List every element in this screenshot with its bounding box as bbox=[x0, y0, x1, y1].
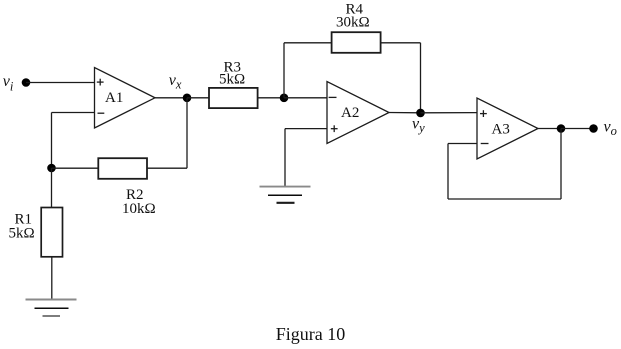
wire A1 inverting input left bbox=[52, 112, 95, 114]
svg-text:vx: vx bbox=[169, 72, 182, 92]
resistor R3 bbox=[209, 88, 258, 108]
feedback wire A3: up left side bbox=[447, 144, 449, 200]
resistor R4 bbox=[332, 32, 381, 53]
wire R3 to node bbox=[258, 97, 284, 99]
wire down to feedback node bbox=[51, 113, 53, 169]
svg-text:30kΩ: 30kΩ bbox=[336, 15, 370, 31]
terminal vo bbox=[589, 124, 598, 133]
svg-text:vi: vi bbox=[3, 73, 14, 93]
wire A2 + input left bbox=[285, 128, 327, 130]
svg-text:vy: vy bbox=[412, 116, 425, 135]
svg-text:10kΩ: 10kΩ bbox=[122, 201, 156, 217]
wire riser up to node vx bbox=[186, 98, 188, 168]
wire node to A2 inverting input bbox=[284, 97, 327, 99]
wire node to R2 bbox=[52, 167, 99, 169]
wire R4 right bbox=[381, 42, 421, 44]
op-amp A2 bbox=[327, 82, 389, 144]
wire down to ground bbox=[284, 129, 286, 187]
ground A2 bbox=[260, 187, 311, 203]
wire to R4 left bbox=[284, 42, 332, 44]
feedback wire A3: node down bbox=[560, 129, 562, 200]
wire R1 to ground bbox=[51, 257, 53, 300]
resistor R2 bbox=[98, 158, 147, 179]
label R1 5k bbox=[9, 211, 35, 241]
feedback wire A3: bottom run bbox=[448, 198, 561, 200]
op-amp A3 bbox=[477, 98, 538, 159]
wire A2 output to vy bbox=[389, 112, 421, 114]
ground R1 bbox=[26, 300, 77, 317]
svg-text:A1: A1 bbox=[105, 90, 123, 106]
wire node to terminal vo bbox=[561, 128, 594, 130]
label R2 10k bbox=[122, 187, 156, 217]
wire node up to R4 bbox=[283, 43, 285, 98]
svg-text:Figura 10: Figura 10 bbox=[276, 324, 346, 344]
label R3 5k bbox=[219, 60, 245, 88]
svg-text:A3: A3 bbox=[492, 122, 510, 138]
wire node down to R1 bbox=[51, 168, 53, 208]
wire down to vy node bbox=[420, 43, 422, 113]
resistor R1 bbox=[41, 208, 62, 257]
op-amp A1 bbox=[95, 68, 156, 129]
node A2 inverting junction bbox=[280, 94, 289, 103]
feedback wire A3: into inverting input bbox=[448, 143, 477, 145]
wire R2 to vertical riser bbox=[147, 167, 187, 169]
terminal vi bbox=[22, 78, 31, 87]
node vx bbox=[183, 94, 192, 103]
wire A3 output to node bbox=[538, 128, 561, 130]
wire vi to A1 + input bbox=[26, 82, 95, 84]
svg-text:vo: vo bbox=[604, 119, 617, 139]
wire vy to A3 + input bbox=[421, 112, 478, 114]
wire vx to R3 bbox=[187, 97, 209, 99]
node vy bbox=[416, 109, 425, 118]
svg-text:A2: A2 bbox=[341, 105, 359, 121]
svg-text:5kΩ: 5kΩ bbox=[219, 72, 245, 88]
svg-text:5kΩ: 5kΩ bbox=[9, 225, 35, 241]
node A3 output bbox=[557, 124, 566, 133]
wire A1 output to node vx bbox=[155, 97, 187, 99]
label R4 30k bbox=[336, 2, 370, 31]
node feedback junction bbox=[47, 164, 56, 173]
